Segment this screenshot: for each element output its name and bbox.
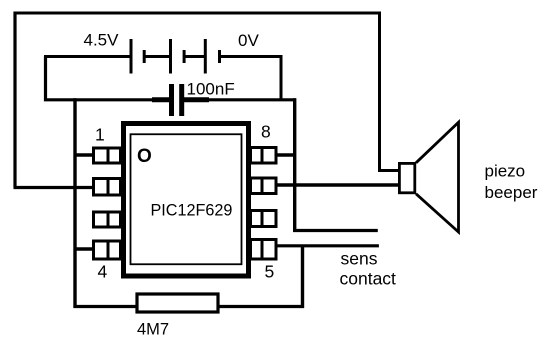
wire top rail xyxy=(14,12,382,15)
resistor R1 4M7 body xyxy=(137,294,218,312)
wire right vertical from top rail to piezo xyxy=(378,12,381,171)
wire left vertical from top rail to pin 2 xyxy=(13,12,16,188)
svg-text:PIC12F629: PIC12F629 xyxy=(151,202,233,220)
wire 0V rail to right corner xyxy=(207,98,296,101)
wire battery left lead xyxy=(44,55,131,58)
wire pin 2 to left rail xyxy=(14,186,94,189)
pin 6 box xyxy=(251,211,277,227)
svg-text:contact: contact xyxy=(340,269,397,289)
battery B1 cell2 negative plate xyxy=(183,50,186,63)
svg-text:4M7: 4M7 xyxy=(137,321,169,338)
piezo beeper driver body xyxy=(399,163,414,192)
svg-text:4.5V: 4.5V xyxy=(84,31,120,50)
pin 8 box xyxy=(251,148,277,164)
wire piezo upper lead xyxy=(378,169,399,172)
pin 7 box xyxy=(251,178,277,194)
wire pin 4 lead xyxy=(74,247,94,250)
wire pin 5 / sens contact lower xyxy=(276,244,379,247)
capacitor C1 right plate xyxy=(179,84,184,116)
battery B1 cell3 positive plate xyxy=(204,39,207,74)
wire sens contact upper xyxy=(293,229,378,232)
IC U1 inner outline xyxy=(131,134,242,264)
wire pin 7 to piezo xyxy=(276,183,399,186)
capacitor C1 left thick lead xyxy=(152,97,169,102)
battery B1 cell3 negative plate xyxy=(218,50,221,63)
pin 1 box xyxy=(94,148,121,163)
pin 2 box xyxy=(94,179,121,196)
battery B1 cell1 positive plate xyxy=(130,39,133,74)
svg-text:sens: sens xyxy=(341,249,378,269)
svg-text:100nF: 100nF xyxy=(187,80,235,99)
pin 3 box xyxy=(94,212,121,227)
svg-text:piezo: piezo xyxy=(485,162,526,181)
wire battery right lead to 0V corner xyxy=(220,57,282,100)
svg-text:8: 8 xyxy=(261,122,271,142)
capacitor C1 right thick lead xyxy=(184,97,209,102)
wire right 0V vertical down to sens contact xyxy=(293,98,296,232)
svg-text:1: 1 xyxy=(95,125,105,145)
wire battery cell2-cell3 xyxy=(184,55,205,58)
svg-text:5: 5 xyxy=(265,262,275,282)
svg-text:4: 4 xyxy=(98,262,108,282)
wire resistor right lead xyxy=(218,305,304,308)
wire left supply branch down to resistor xyxy=(73,98,76,308)
battery B1 cell2 positive plate xyxy=(169,39,172,74)
svg-text:0V: 0V xyxy=(238,31,259,50)
pin 5 box xyxy=(251,240,277,260)
piezo beeper cone xyxy=(416,122,459,232)
battery B1 cell1 negative plate xyxy=(143,50,146,63)
pin 4 box xyxy=(94,241,121,259)
svg-text:O: O xyxy=(137,146,152,167)
wire 4.5V rail down and right to capacitor xyxy=(46,57,170,100)
wire battery cell1-cell2 xyxy=(144,55,170,58)
capacitor C1 left plate xyxy=(169,84,174,116)
wire pin 5 branch down to resistor xyxy=(301,246,304,308)
wire pin 1 lead xyxy=(74,153,94,156)
wire resistor left lead xyxy=(74,305,138,308)
svg-text:beeper: beeper xyxy=(485,183,538,202)
wire pin 8 lead xyxy=(276,153,296,156)
IC U1 PIC12F629 outer body xyxy=(124,124,249,277)
